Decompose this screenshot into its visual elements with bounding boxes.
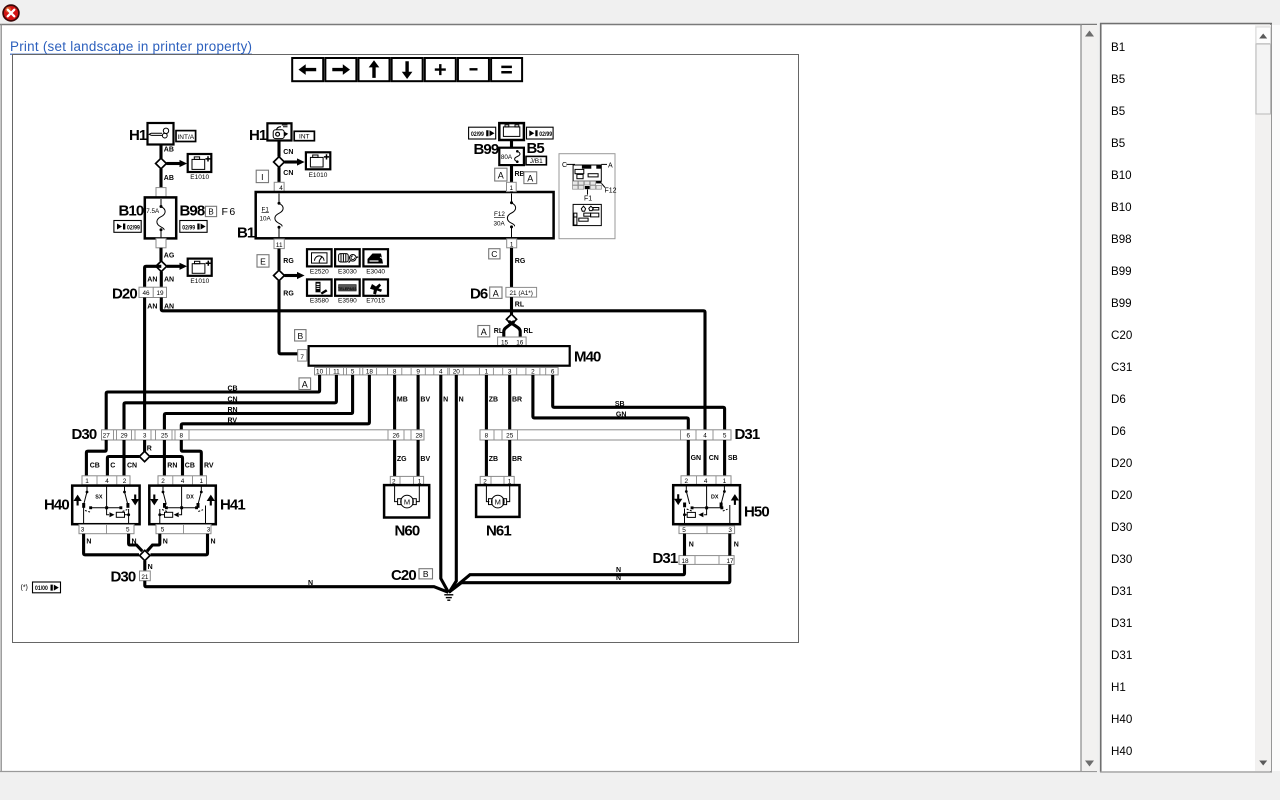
svg-text:RV: RV: [204, 462, 214, 469]
boxed letter A (M40 top): [478, 326, 490, 337]
svg-text:H1: H1: [1111, 681, 1126, 694]
motor N61 label: [486, 523, 511, 540]
svg-text:A: A: [481, 327, 487, 337]
svg-text:N: N: [459, 396, 464, 403]
svg-text:CB: CB: [185, 462, 195, 469]
connector D31 label (bottom): [653, 550, 678, 567]
svg-text:GN: GN: [616, 411, 627, 418]
boxed letter I: [256, 170, 268, 182]
svg-text:B: B: [423, 569, 429, 579]
svg-text:1: 1: [510, 241, 514, 248]
date badge before 02/99 (B10): [114, 221, 141, 233]
svg-text:MB: MB: [397, 396, 408, 403]
svg-text:CB: CB: [228, 386, 238, 393]
svg-text:TELEPASS: TELEPASS: [338, 287, 357, 291]
svg-text:F1: F1: [262, 206, 270, 213]
svg-text:CB: CB: [90, 462, 100, 469]
svg-text:N: N: [163, 539, 168, 546]
svg-text:GN: GN: [691, 455, 702, 462]
svg-text:B99: B99: [474, 141, 499, 158]
connector strip D31 (upper): [480, 430, 731, 440]
svg-text:BR: BR: [512, 396, 522, 403]
connector pin (white) below B10: [156, 238, 166, 247]
boxed letter A (right of RB): [524, 172, 537, 184]
svg-text:C: C: [562, 162, 567, 169]
asterisk note: [21, 585, 28, 592]
svg-text:E3030: E3030: [338, 268, 357, 275]
ground point E1010 (at D20): [188, 259, 212, 286]
wire N H50 pin3 to D31 pin17: [730, 534, 739, 556]
svg-text:1: 1: [485, 369, 489, 376]
INT/A terminal box: [176, 131, 196, 142]
svg-text:E1010: E1010: [190, 278, 209, 285]
svg-text:A: A: [493, 288, 499, 298]
ground C20 label: [391, 567, 416, 584]
svg-text:RG: RG: [515, 258, 526, 265]
node junction under H1 second: [274, 157, 285, 168]
svg-text:CN: CN: [228, 396, 238, 403]
svg-text:A: A: [608, 162, 613, 169]
boxed letter A (M40 bottom): [299, 378, 311, 390]
megafuse 80A box: [499, 148, 524, 165]
wire AB from H1: [161, 145, 174, 159]
wire AB to B10: [161, 169, 174, 198]
wire RB into B1: [510, 192, 513, 193]
svg-text:C20: C20: [1111, 329, 1132, 342]
svg-text:C20: C20: [391, 567, 416, 584]
switch H40 body: [72, 486, 139, 525]
svg-text:4: 4: [105, 478, 109, 485]
svg-text:02/99: 02/99: [182, 225, 195, 232]
connector D20 label: [112, 286, 137, 303]
svg-text:D31: D31: [1111, 617, 1132, 630]
svg-text:(*): (*): [21, 585, 28, 592]
wire BR M40 pin3 to D31 pin25: [510, 375, 522, 430]
svg-text:2: 2: [161, 478, 165, 485]
switch H40 bottom pins 3 5: [79, 525, 134, 534]
date badge 02/99 (B99): [469, 127, 496, 139]
svg-text:25: 25: [506, 433, 514, 440]
svg-text:8: 8: [180, 433, 184, 440]
switch H50 bottom pins 5 3: [679, 526, 735, 534]
svg-text:INT/A: INT/A: [177, 134, 194, 141]
svg-text:9: 9: [416, 369, 420, 376]
svg-text:B10: B10: [1111, 169, 1132, 182]
svg-text:B98: B98: [1111, 233, 1132, 246]
wire N junction to D30 pin21: [145, 561, 153, 571]
wire MB M40 pin8 to D30 pin26: [395, 375, 408, 430]
svg-text:B: B: [208, 208, 213, 217]
wire RN M40 pin5 to D30 pin25: [164, 375, 352, 430]
wire AN left branch into D20 pin 46: [145, 266, 162, 287]
wire RL crossover to pins 15 16: [494, 321, 534, 337]
wire SB D31 pin5 to H50 pin1: [725, 440, 738, 476]
node junction RG: [274, 270, 285, 281]
sidebar scrollbar down arrow: [1259, 761, 1267, 766]
svg-text:3: 3: [81, 527, 85, 534]
boxed letter B (M40 left): [295, 330, 306, 341]
svg-text:D6: D6: [470, 286, 488, 303]
wire R below D30 pin3: [145, 440, 152, 453]
svg-text:4: 4: [439, 369, 443, 376]
boxed letter A (left of RB): [495, 168, 507, 181]
date badge 01/00: [33, 582, 61, 593]
svg-text:18: 18: [366, 369, 374, 376]
boxed letter C: [489, 249, 500, 259]
svg-text:DX: DX: [186, 495, 194, 501]
connector strip D30 label: [72, 426, 97, 443]
wire RG from B1 pin 11: [279, 249, 294, 271]
svg-text:SB: SB: [615, 401, 625, 408]
accessory E3040 door: [363, 249, 388, 275]
svg-text:AN: AN: [164, 277, 174, 284]
svg-text:E3590: E3590: [338, 298, 357, 305]
wire ZG D30 pin26 to N60 pin2: [395, 440, 408, 476]
fuse box B10 7.5A: [145, 197, 176, 238]
switch H40 top pins 1 4 2: [82, 476, 130, 485]
svg-text:21 (A1*): 21 (A1*): [509, 290, 532, 297]
wire N H40 pin3 to junction: [84, 534, 139, 555]
svg-text:C31: C31: [1111, 361, 1132, 374]
svg-text:D30: D30: [111, 569, 136, 586]
svg-text:29: 29: [120, 433, 128, 440]
wire N M40 pin20 to ground: [449, 375, 463, 592]
toolbar button minus: [458, 58, 489, 81]
svg-text:H40: H40: [44, 496, 69, 513]
switch H41 bottom pins 5 3: [156, 525, 211, 534]
svg-text:D20: D20: [1111, 489, 1132, 502]
svg-text:D30: D30: [1111, 553, 1132, 566]
connector D6 label: [470, 286, 488, 303]
connector D30 label (bottom): [111, 569, 136, 586]
svg-text:RL: RL: [494, 328, 504, 335]
svg-text:8: 8: [485, 433, 489, 440]
switch H41 top pins 2 4 1: [158, 476, 207, 485]
svg-text:N: N: [689, 542, 694, 549]
svg-text:BV: BV: [420, 396, 430, 403]
connector pin (white) above B10: [156, 188, 166, 198]
fuse box B1 label: [237, 224, 255, 241]
svg-text:H41: H41: [220, 496, 245, 513]
svg-text:C: C: [491, 249, 497, 259]
svg-text:18: 18: [681, 558, 689, 565]
svg-text:B5: B5: [527, 140, 545, 157]
svg-text:E: E: [260, 257, 266, 267]
boxed letter B (B98): [205, 206, 216, 216]
arrow to ground E1010 (second): [167, 263, 187, 270]
pin 4 of B1: [274, 182, 284, 192]
wire GN D31 pin6 to H50 pin2: [688, 440, 701, 476]
wire RG continues to M40 pin 7: [279, 281, 298, 354]
ground point E1010 (left): [188, 154, 212, 181]
motor N61 pins 2 1: [480, 476, 514, 485]
svg-text:AN: AN: [147, 277, 157, 284]
svg-text:E2520: E2520: [310, 268, 329, 275]
svg-text:RV: RV: [228, 417, 238, 424]
connector D30 pin 21: [140, 571, 151, 581]
svg-text:B99: B99: [1111, 265, 1132, 278]
svg-text:B1: B1: [1111, 41, 1125, 54]
ground symbol: [444, 595, 453, 600]
svg-text:N: N: [148, 564, 153, 571]
junction block J/B1 box: [526, 156, 546, 165]
pin 11 of B1: [274, 239, 284, 249]
svg-text:M40: M40: [574, 349, 601, 366]
wire RL from D6: [512, 297, 525, 315]
svg-text:3: 3: [143, 433, 147, 440]
svg-text:30A: 30A: [494, 220, 506, 227]
svg-text:B98: B98: [180, 203, 205, 220]
boxed letter A (D6): [490, 287, 502, 298]
pin 1 top of B1: [507, 182, 517, 192]
fuse designator F6: [222, 206, 237, 218]
wire N M40 pin4 to ground: [441, 375, 449, 592]
svg-text:B5: B5: [1111, 73, 1125, 86]
svg-text:4: 4: [703, 433, 707, 440]
svg-text:01/00: 01/00: [35, 585, 48, 592]
svg-text:B10: B10: [1111, 201, 1132, 214]
svg-text:I: I: [261, 172, 263, 182]
svg-text:RN: RN: [167, 462, 177, 469]
svg-text:D20: D20: [1111, 457, 1132, 470]
svg-text:5: 5: [126, 527, 130, 534]
svg-text:5: 5: [723, 433, 727, 440]
svg-text:DX: DX: [711, 494, 719, 500]
svg-text:AN: AN: [147, 304, 157, 311]
svg-text:M: M: [495, 497, 501, 506]
close button: [3, 5, 19, 21]
svg-text:J/B1: J/B1: [530, 158, 543, 165]
ignition switch H1 key symbol box: [148, 123, 174, 145]
svg-text:N: N: [211, 539, 216, 546]
svg-text:28: 28: [415, 433, 423, 440]
svg-text:INT: INT: [299, 134, 310, 141]
svg-text:N: N: [616, 567, 621, 574]
svg-text:ZG: ZG: [397, 456, 407, 463]
svg-text:BR: BR: [512, 456, 522, 463]
toolbar button up: [359, 58, 390, 81]
connector pins 15 16 on M40: [498, 337, 526, 346]
switch H41 label: [220, 496, 245, 513]
wire GN M40 pin2 to D31 pin6: [533, 375, 688, 430]
wire CN D31 pin4 to H50 pin4: [705, 440, 719, 476]
svg-text:E3580: E3580: [310, 298, 329, 305]
svg-text:26: 26: [392, 433, 400, 440]
arrow to ground E1010 (third): [284, 158, 304, 165]
connector strip D30: [102, 430, 425, 440]
svg-text:N: N: [86, 539, 91, 546]
svg-text:3: 3: [508, 369, 512, 376]
ignition switch H1 label: [129, 127, 147, 144]
svg-text:N: N: [443, 396, 448, 403]
svg-text:N: N: [734, 542, 739, 549]
motor N61 body: [476, 485, 519, 517]
node junction R: [139, 451, 149, 461]
svg-text:CN: CN: [127, 462, 137, 469]
wire N H41 pin5 to junction: [147, 534, 168, 552]
diagram frame: [13, 55, 799, 643]
boxed letter B (C20): [419, 569, 433, 579]
battery B5 label: [527, 140, 545, 157]
svg-text:20: 20: [453, 369, 461, 376]
wire RN D30 pin25 to H41 pin2: [164, 440, 177, 476]
courtesy light switch H1 label (second): [249, 127, 267, 144]
svg-text:RG: RG: [283, 258, 294, 265]
svg-text:A: A: [302, 379, 308, 389]
svg-text:N: N: [308, 580, 313, 587]
pin 1 bottom of B1: [507, 239, 517, 249]
svg-text:CN: CN: [283, 149, 293, 156]
svg-text:B10: B10: [119, 203, 144, 220]
svg-text:RL: RL: [524, 328, 534, 335]
svg-text:46: 46: [142, 290, 150, 297]
wire CB M40 pin10 to D30 pin27: [106, 375, 319, 430]
main scrollbar up arrow: [1085, 31, 1094, 37]
accessory E7015 alarm: [363, 279, 388, 304]
svg-text:1: 1: [85, 478, 89, 485]
date badge 02/99 (B5): [527, 127, 554, 139]
wire C from junction to H40 pin4: [107, 457, 139, 476]
svg-text:N61: N61: [486, 523, 511, 540]
accessory E3030 climate control: [335, 249, 360, 275]
svg-text:E3040: E3040: [366, 268, 385, 275]
wire RV M40 pin18 to D30 pin8: [181, 375, 369, 430]
toolbar button right: [325, 58, 356, 81]
wire CN D30 pin29 to H40 pin2: [124, 440, 137, 476]
wire CN from H1 second: [279, 141, 293, 157]
battery B99 label: [474, 141, 499, 158]
svg-text:N60: N60: [395, 523, 420, 540]
switch H40 label: [44, 496, 69, 513]
wire RB: [512, 165, 525, 182]
svg-text:2: 2: [531, 369, 535, 376]
motor N60 body: [384, 485, 429, 517]
wire ZB D31 pin8 to N61 pin2: [486, 440, 498, 476]
svg-text:RB: RB: [515, 171, 525, 178]
wire N H40 pin5 to junction: [129, 534, 143, 552]
svg-text:A: A: [498, 171, 504, 181]
accessory E3590 telepass: [335, 279, 360, 304]
svg-text:RG: RG: [283, 291, 294, 298]
wire ZB M40 pin1 to D31 pin8: [486, 375, 498, 430]
node junction RL: [506, 314, 516, 324]
wire battery to megafuse: [510, 140, 513, 148]
svg-text:3: 3: [207, 527, 211, 534]
wire RV D30 pin8 to H41 pin1: [181, 440, 214, 476]
toolbar button plus: [425, 58, 456, 81]
svg-text:7.5A: 7.5A: [146, 208, 160, 215]
connector pin 7 on M40: [298, 350, 307, 362]
svg-text:80A: 80A: [501, 154, 513, 161]
wire AG: [161, 248, 175, 261]
fuse box B1 body: [256, 192, 554, 238]
svg-text:19: 19: [156, 290, 164, 297]
svg-text:BV: BV: [420, 456, 430, 463]
svg-text:17: 17: [726, 558, 734, 565]
svg-text:F12: F12: [494, 211, 505, 218]
svg-text:8: 8: [393, 369, 397, 376]
svg-text:D31: D31: [653, 550, 678, 567]
wire BR D31 pin25 to N61 pin1: [510, 440, 522, 476]
svg-text:D6: D6: [1111, 393, 1126, 406]
svg-text:1: 1: [200, 478, 204, 485]
svg-text:CN: CN: [709, 455, 719, 462]
svg-text:27: 27: [103, 433, 111, 440]
svg-text:F12: F12: [605, 188, 617, 195]
svg-text:5: 5: [161, 527, 165, 534]
svg-text:AG: AG: [164, 253, 175, 260]
wire CB from junction to H41 pin4: [150, 457, 195, 476]
accessory E2520 instrument cluster: [307, 249, 332, 275]
svg-text:C: C: [110, 462, 115, 469]
svg-text:11: 11: [276, 242, 283, 249]
arrow to accessory group: [284, 272, 304, 279]
node junction above D20: [156, 261, 167, 272]
svg-text:ZB: ZB: [489, 456, 498, 463]
svg-text:D6: D6: [1111, 425, 1126, 438]
wire SB M40 pin6 to D31 pin5: [553, 375, 725, 430]
svg-text:5: 5: [682, 527, 686, 534]
wire N H41 pin3 to junction: [151, 534, 216, 555]
switch H50 top pins 2 4 1: [681, 476, 731, 485]
sidebar scrollbar thumb: [1256, 44, 1271, 114]
svg-text:F6: F6: [222, 206, 237, 218]
svg-text:AB: AB: [164, 175, 174, 182]
accessory E3580 telephone: [307, 279, 332, 304]
wire BV M40 pin9 to D30 pin28: [418, 375, 430, 430]
wire CB D30 pin27 to H40 pin1: [86, 440, 106, 476]
wire N D31 pin17 to ground: [449, 564, 730, 592]
fusebox location inset: [559, 154, 617, 239]
ground point E1010 (right of H1): [306, 152, 330, 179]
fuse B10 label: [119, 203, 144, 220]
toolbar button down: [392, 58, 423, 81]
svg-text:10A: 10A: [260, 216, 272, 223]
arrow to ground E1010: [166, 160, 187, 167]
INT terminal box: [294, 131, 314, 140]
wire CN M40 pin11 to D30 pin29: [124, 375, 336, 430]
control unit M40 box: [309, 346, 570, 366]
svg-text:E1010: E1010: [309, 172, 328, 179]
svg-text:25: 25: [161, 433, 169, 440]
svg-text:ZB: ZB: [489, 396, 498, 403]
svg-text:D30: D30: [72, 426, 97, 443]
svg-text:H1: H1: [249, 127, 267, 144]
svg-text:R: R: [147, 446, 152, 453]
date badge after 02/99 (B98): [180, 221, 207, 233]
svg-text:N: N: [616, 575, 621, 582]
svg-text:Print (set landscape in printe: Print (set landscape in printer property…: [10, 39, 252, 54]
switch H50 label: [744, 504, 769, 521]
print link: [10, 39, 252, 54]
wire N D31 pin18 to ground: [449, 564, 685, 592]
wire AN from D20 pin 46 down to D30 pin 3: [145, 298, 158, 430]
wire AN from D20 pin 19 across to D31 pin 4: [161, 298, 705, 430]
fuse F1 10A inside B1: [260, 194, 284, 239]
svg-text:02/99: 02/99: [471, 131, 484, 138]
svg-text:02/99: 02/99: [539, 131, 552, 138]
svg-text:02/99: 02/99: [127, 225, 140, 232]
wire RG to D6: [512, 248, 526, 288]
main scrollbar down arrow: [1085, 761, 1094, 767]
svg-text:H1: H1: [129, 127, 147, 144]
svg-text:5: 5: [351, 369, 355, 376]
svg-text:AB: AB: [164, 147, 174, 154]
switch H50 body: [673, 485, 740, 524]
svg-text:E7015: E7015: [366, 298, 385, 305]
svg-text:21: 21: [141, 574, 149, 581]
relay B98 label: [180, 203, 205, 220]
